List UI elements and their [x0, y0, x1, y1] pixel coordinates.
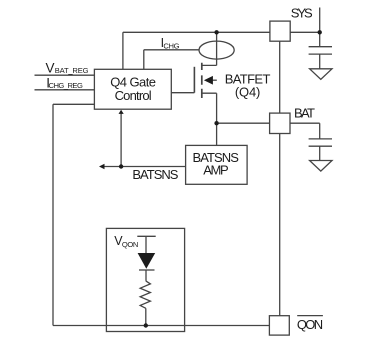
svg-text:BATSNS: BATSNS — [132, 167, 178, 182]
svg-text:BAT_REG: BAT_REG — [55, 66, 89, 75]
svg-text:CHG_REG: CHG_REG — [49, 81, 83, 90]
svg-text:Control: Control — [115, 88, 152, 103]
svg-text:AMP: AMP — [203, 163, 229, 178]
svg-text:CHG: CHG — [163, 42, 179, 51]
svg-text:V: V — [46, 60, 55, 75]
svg-text:SYS: SYS — [291, 6, 313, 21]
svg-text:(Q4): (Q4) — [235, 84, 260, 99]
svg-text:BAT: BAT — [294, 105, 315, 120]
svg-text:QON: QON — [122, 240, 138, 249]
svg-text:QON: QON — [297, 317, 323, 332]
